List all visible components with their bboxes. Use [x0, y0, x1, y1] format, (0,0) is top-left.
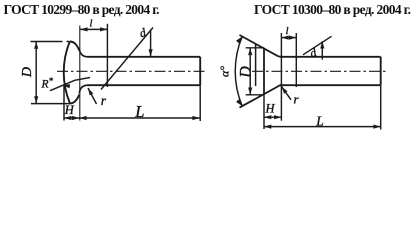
svg-text:L: L [134, 102, 144, 121]
svg-text:ГОСТ 10299–80 в ред. 2004 г.: ГОСТ 10299–80 в ред. 2004 г. [4, 2, 160, 17]
svg-text:r: r [294, 92, 300, 107]
svg-text:R*: R* [41, 76, 54, 90]
svg-text:ГОСТ 10300–80 в ред. 2004 г.: ГОСТ 10300–80 в ред. 2004 г. [254, 2, 411, 17]
svg-text:α°: α° [218, 66, 232, 77]
svg-text:r: r [101, 93, 107, 108]
svg-text:d: d [138, 25, 149, 40]
svg-text:H: H [64, 103, 75, 117]
svg-text:D: D [20, 67, 35, 78]
svg-text:H: H [265, 102, 276, 116]
svg-text:L: L [315, 113, 324, 128]
svg-text:d: d [308, 45, 319, 60]
svg-text:l: l [90, 19, 93, 30]
svg-text:l: l [286, 26, 289, 37]
svg-text:D: D [237, 66, 254, 79]
